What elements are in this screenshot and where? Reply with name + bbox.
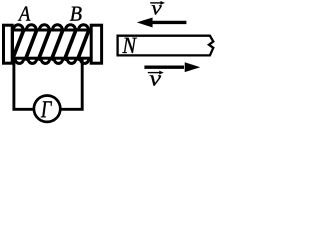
label B — [70, 7, 82, 21]
coil winding turn 6 — [77, 25, 89, 64]
magnet pole label N — [122, 38, 137, 53]
left end cap — [4, 25, 13, 63]
coil winding turn 4 — [51, 25, 63, 64]
right end cap — [91, 25, 101, 63]
wire from A end to galvanometer — [14, 58, 35, 110]
galvanometer circle — [34, 96, 60, 122]
coil winding turn 1 — [12, 25, 24, 64]
top v label with vector arrow — [150, 1, 164, 14]
wire from B end to galvanometer — [61, 59, 83, 110]
bar magnet — [118, 36, 214, 56]
coil winding turn 5 — [64, 25, 76, 64]
coil core — [13, 30, 92, 58]
coil winding turn 2 — [25, 25, 37, 64]
bottom v label with vector arrow — [148, 71, 164, 86]
galvanometer label — [41, 101, 52, 117]
bottom velocity arrow (right) — [144, 63, 199, 72]
top velocity arrow (left) — [137, 18, 186, 28]
coil winding turn 3 — [38, 25, 50, 64]
label A — [18, 6, 31, 20]
